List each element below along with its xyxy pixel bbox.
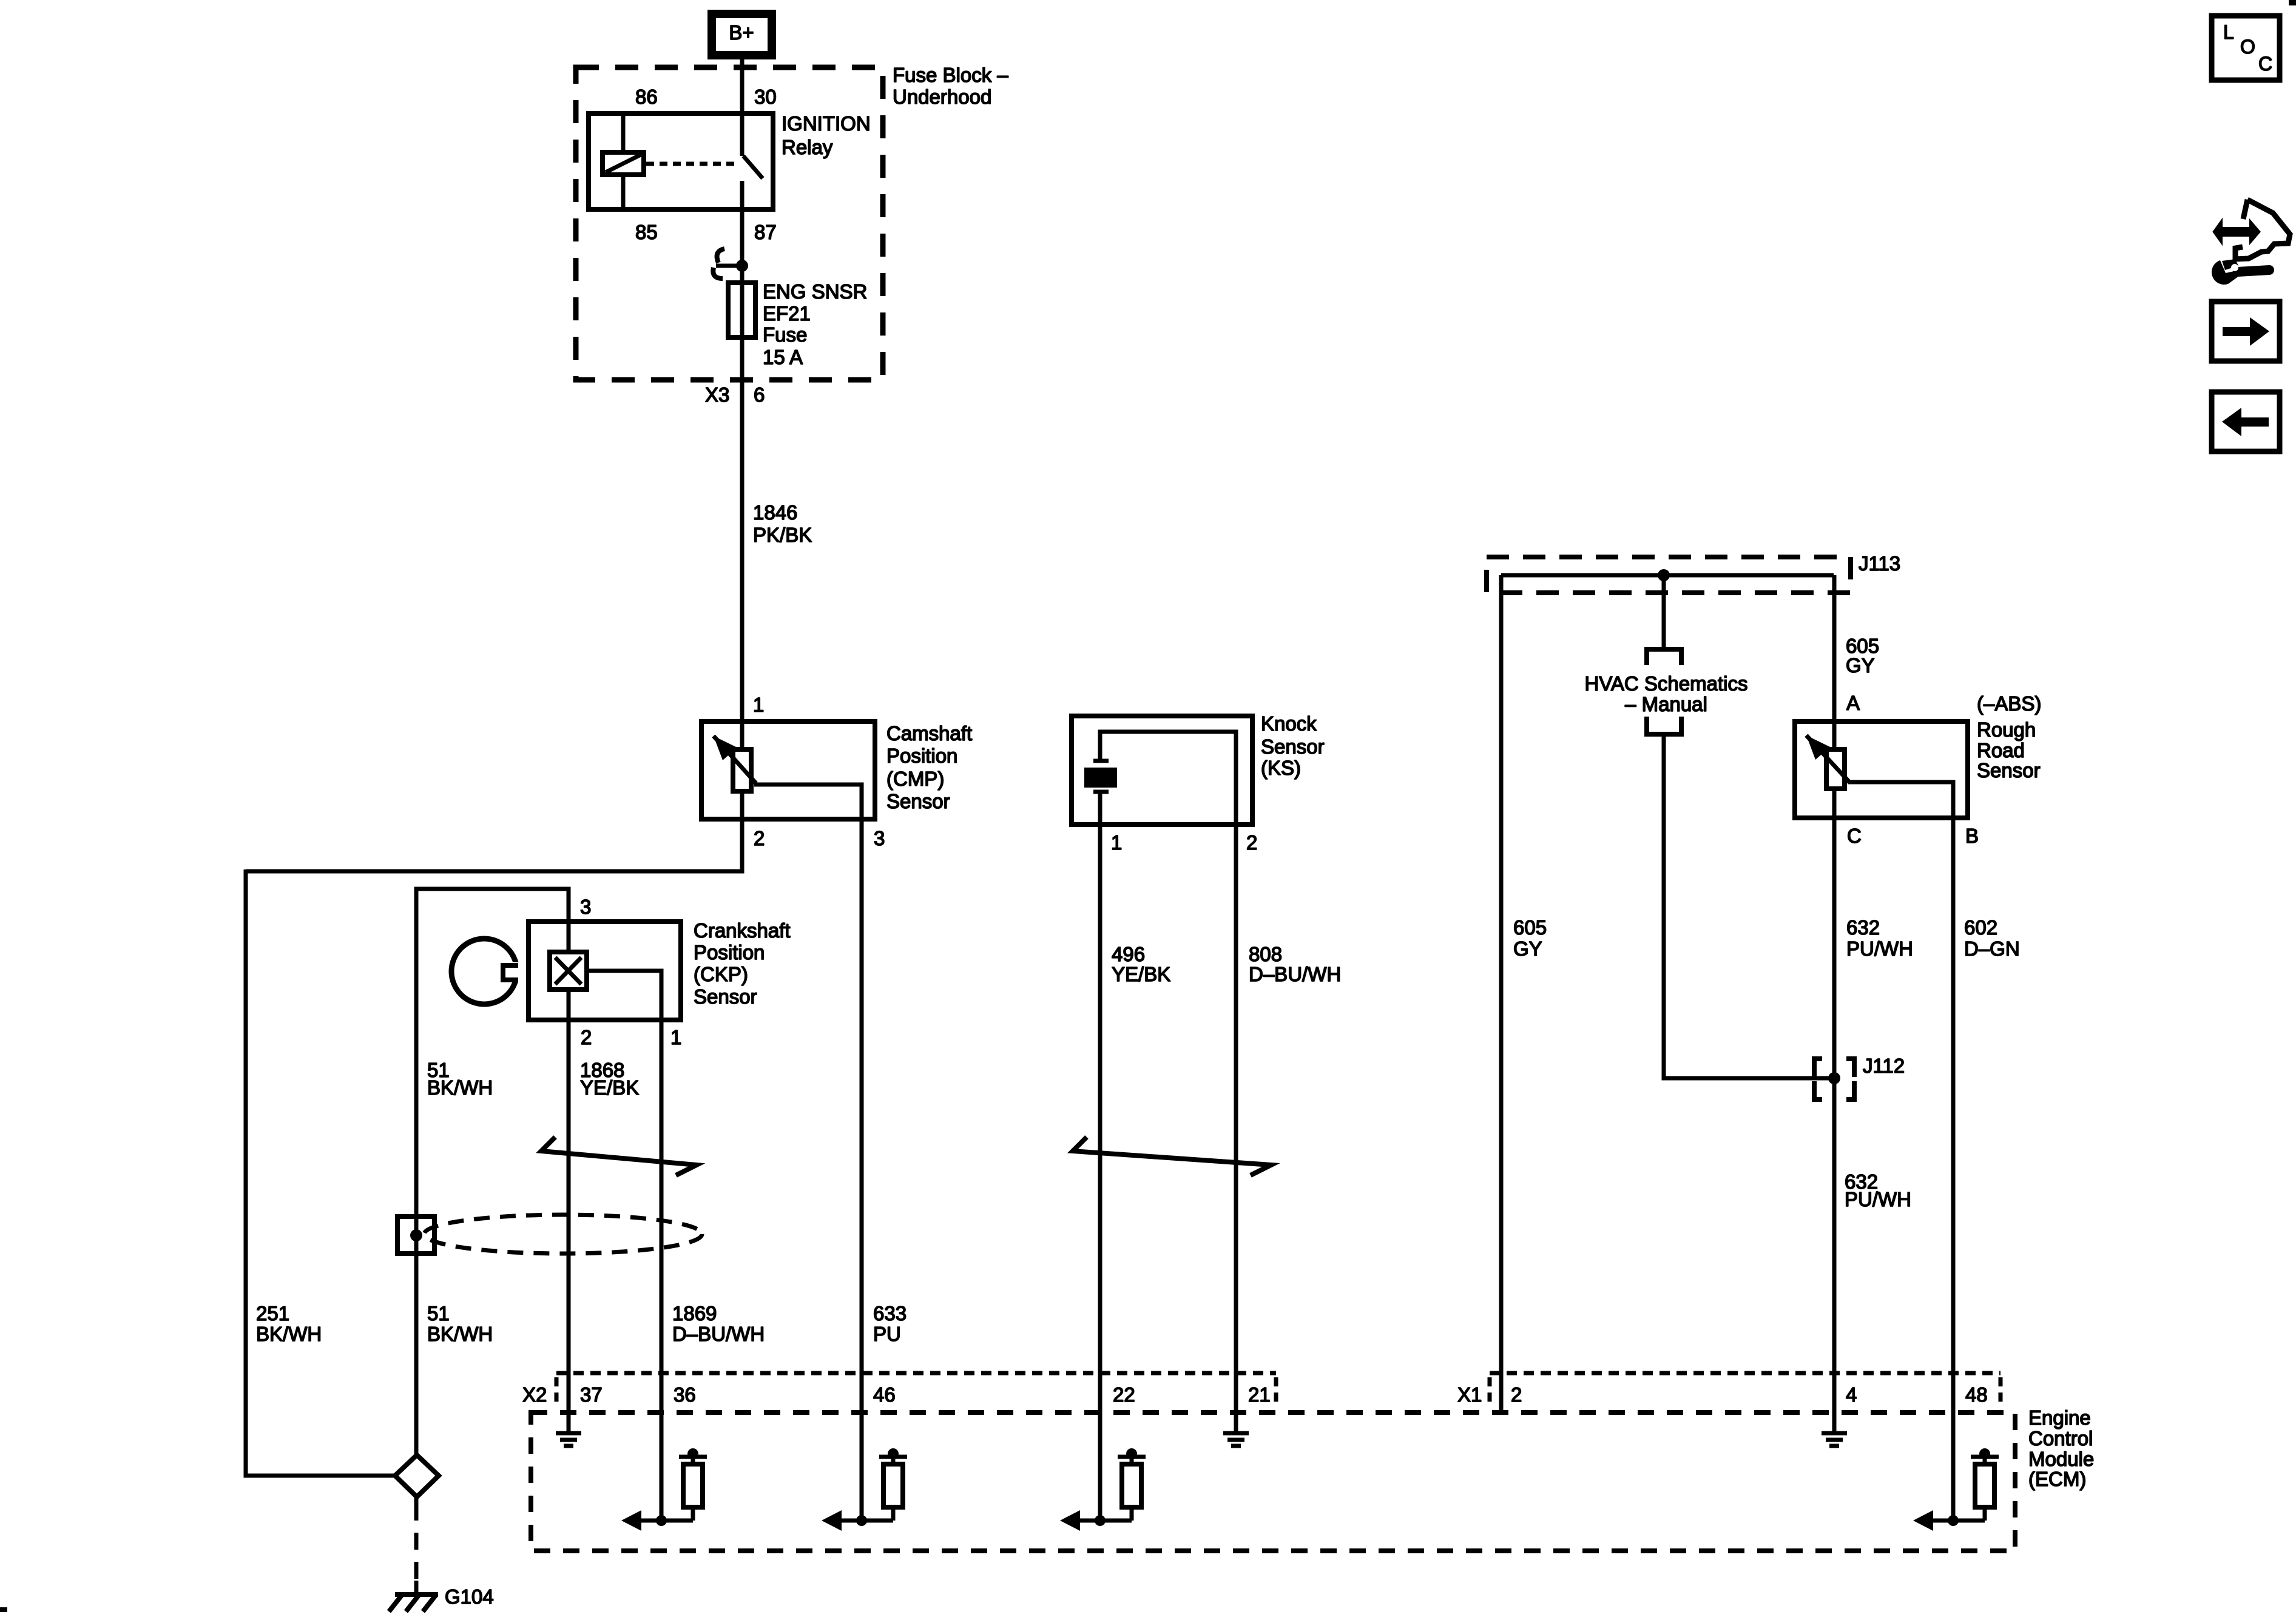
svg-text:496: 496 <box>1112 943 1145 965</box>
svg-text:86: 86 <box>635 86 658 108</box>
CKP internal wires <box>567 922 571 950</box>
wire 808 D-BU/WH to ECM pin 21 <box>1234 825 1238 1431</box>
svg-text:J112: J112 <box>1863 1055 1905 1077</box>
svg-text:A: A <box>1846 692 1860 714</box>
svg-text:HVAC Schematics: HVAC Schematics <box>1585 672 1748 695</box>
svg-text:632: 632 <box>1846 916 1880 939</box>
wire CKP pin 3 shield to 51 BK/WH <box>416 889 569 922</box>
svg-text:1846: 1846 <box>753 501 797 524</box>
svg-text:J113: J113 <box>1859 552 1900 575</box>
svg-text:37: 37 <box>580 1383 603 1406</box>
svg-text:BK/WH: BK/WH <box>427 1076 493 1099</box>
junction J112 node <box>1828 1072 1840 1084</box>
twisted pair symbol KS wires <box>1073 1137 1271 1175</box>
svg-text:PU/WH: PU/WH <box>1845 1188 1911 1210</box>
svg-text:PU: PU <box>873 1323 901 1345</box>
svg-text:1: 1 <box>670 1026 681 1048</box>
knock sensor element <box>1098 792 1102 825</box>
svg-text:(ECM): (ECM) <box>2028 1468 2086 1490</box>
off-page reference bracket top <box>1647 649 1681 665</box>
J113 bus wire <box>1501 573 1834 578</box>
svg-text:602: 602 <box>1964 916 1997 939</box>
svg-text:Fuse: Fuse <box>763 323 807 346</box>
junction block J113 dashed box <box>1487 557 1851 593</box>
svg-text:2: 2 <box>581 1026 592 1048</box>
svg-text:1: 1 <box>753 694 764 716</box>
wire 605 GY left to ECM X1 pin 2 <box>1499 575 1504 1413</box>
svg-text:O: O <box>2240 36 2255 58</box>
back arrow box <box>2212 392 2280 451</box>
svg-text:1869: 1869 <box>672 1302 717 1325</box>
connector clip symbol at fuse junction <box>717 249 724 263</box>
svg-text:– Manual: – Manual <box>1625 693 1707 715</box>
wire 1846 PK/BK to CMP sensor <box>740 380 745 723</box>
ECM internal circuit pin 46 <box>840 1519 893 1523</box>
wire 605 GY right to rough road sensor <box>1832 575 1837 721</box>
CMP sensor element arrow and resistor <box>740 721 745 819</box>
page corner mark bottom left <box>0 1607 7 1612</box>
wire 1869 D-BU/WH to ECM pin 36 <box>660 1020 664 1521</box>
wire 251 BK/WH left rail <box>246 869 395 1476</box>
svg-text:605: 605 <box>1513 916 1547 939</box>
svg-text:3: 3 <box>874 827 885 849</box>
ECM internal ground pin 21 <box>1234 1413 1238 1431</box>
diagnostic hand tool icon <box>2243 200 2247 219</box>
svg-text:Rough: Rough <box>1977 718 2036 741</box>
relay coil branch wire pin 86 to 85 <box>621 113 626 152</box>
B+ battery feed symbol <box>712 14 772 55</box>
svg-text:C: C <box>2258 53 2272 75</box>
ECM internal ground pin 4 <box>1832 1413 1837 1431</box>
CMP internal wire to pin 3 <box>754 785 862 819</box>
svg-text:251: 251 <box>256 1302 289 1325</box>
CKP pickup coil X-square <box>550 952 587 990</box>
connector X1 dotted line <box>1490 1371 2001 1376</box>
svg-text:Road: Road <box>1977 739 2025 761</box>
RRS internal wire to pin B <box>1848 782 1953 818</box>
ECM internal ground pin 37 <box>567 1413 571 1431</box>
relay switch blade <box>743 156 763 178</box>
dashed wire to ground G104 <box>414 1497 419 1504</box>
svg-text:X1: X1 <box>1457 1383 1482 1406</box>
svg-text:48: 48 <box>1965 1383 1988 1406</box>
relay switch lower contact wire pin 87 <box>740 181 745 266</box>
wire 496 YE/BK to ECM pin 22 <box>1098 825 1102 1521</box>
wire 632 PU/WH to ECM X1 pin 4 <box>1832 818 1837 1431</box>
svg-text:Sensor: Sensor <box>694 985 757 1008</box>
svg-text:633: 633 <box>873 1302 907 1325</box>
svg-text:PU/WH: PU/WH <box>1846 937 1913 960</box>
svg-text:22: 22 <box>1113 1383 1135 1406</box>
svg-text:Fuse Block –: Fuse Block – <box>893 64 1008 86</box>
ignition relay box <box>589 113 773 209</box>
Fuse Block - Underhood dashed box <box>576 67 883 380</box>
svg-text:BK/WH: BK/WH <box>427 1323 493 1345</box>
svg-text:21: 21 <box>1248 1383 1271 1406</box>
wire B+ to ignition relay pin 30 <box>740 57 745 156</box>
inline connector on wire 51 <box>397 1217 434 1254</box>
twisted pair symbol CKP wires <box>541 1137 697 1175</box>
svg-text:4: 4 <box>1846 1383 1857 1406</box>
svg-text:YE/BK: YE/BK <box>580 1076 639 1099</box>
svg-text:(KS): (KS) <box>1261 757 1301 779</box>
svg-text:Sensor: Sensor <box>886 790 950 812</box>
svg-text:Crankshaft: Crankshaft <box>694 919 791 942</box>
off-page reference bracket bottom <box>1647 717 1681 734</box>
wrench icon <box>2238 270 2269 272</box>
svg-text:Underhood: Underhood <box>893 86 991 108</box>
wire 1868 YE/BK to ECM pin 37 <box>567 1020 571 1431</box>
crankshaft position CKP sensor box <box>528 922 681 1020</box>
fuse ENG SNSR EF21 15A <box>740 266 745 283</box>
J113 junction node <box>1658 569 1670 581</box>
svg-text:Camshaft: Camshaft <box>886 722 972 744</box>
svg-text:(–ABS): (–ABS) <box>1977 692 2041 715</box>
svg-text:GY: GY <box>1846 654 1875 677</box>
svg-text:51: 51 <box>427 1302 450 1325</box>
svg-text:PK/BK: PK/BK <box>753 524 812 546</box>
svg-text:Module: Module <box>2028 1448 2094 1470</box>
relay coil <box>603 152 644 175</box>
rough road sensor box <box>1795 721 1968 818</box>
svg-text:(CMP): (CMP) <box>886 768 944 790</box>
HVAC schematics branch wire <box>1662 575 1666 647</box>
svg-text:Engine: Engine <box>2028 1406 2091 1429</box>
ECM internal circuit pin 36 <box>640 1519 693 1523</box>
svg-text:B+: B+ <box>729 21 754 44</box>
RRS sensor element arrow and resistor <box>1832 721 1837 818</box>
wire HVAC branch down to J112 <box>1664 734 1834 1078</box>
svg-text:D–BU/WH: D–BU/WH <box>672 1323 765 1345</box>
svg-text:(CKP): (CKP) <box>694 963 748 985</box>
svg-text:EF21: EF21 <box>763 302 811 325</box>
svg-text:D–BU/WH: D–BU/WH <box>1249 963 1341 985</box>
wire 51 BK/WH from splice <box>414 889 419 1455</box>
svg-text:1: 1 <box>1111 831 1122 854</box>
svg-text:36: 36 <box>674 1383 696 1406</box>
svg-text:X3: X3 <box>705 383 729 406</box>
svg-text:Knock: Knock <box>1261 712 1317 735</box>
svg-text:BK/WH: BK/WH <box>256 1323 322 1345</box>
svg-text:IGNITION: IGNITION <box>782 112 871 135</box>
svg-text:85: 85 <box>635 221 658 243</box>
svg-text:Sensor: Sensor <box>1261 735 1325 758</box>
svg-text:GY: GY <box>1513 937 1542 960</box>
ECM internal circuit pin 48 <box>1931 1519 1985 1523</box>
junction node above fuse <box>736 260 748 272</box>
svg-text:2: 2 <box>1511 1383 1522 1406</box>
camshaft position CMP sensor box <box>701 721 875 819</box>
wire CMP pin 2 ground path <box>246 819 742 871</box>
svg-text:15 A: 15 A <box>763 346 803 368</box>
svg-text:L: L <box>2223 21 2234 43</box>
ground G104 chassis symbol <box>414 1581 419 1595</box>
svg-text:Sensor: Sensor <box>1977 759 2041 781</box>
svg-text:Position: Position <box>694 941 765 964</box>
page corner mark top right <box>2289 0 2296 5</box>
relay actuation dashed link <box>646 162 739 166</box>
svg-text:808: 808 <box>1249 943 1282 965</box>
svg-text:6: 6 <box>754 383 765 406</box>
svg-text:D–GN: D–GN <box>1964 937 2020 960</box>
knock sensor KS box <box>1072 716 1252 825</box>
svg-text:B: B <box>1965 825 1979 847</box>
harness dashed ellipse <box>424 1215 702 1254</box>
CKP reluctor wheel circle <box>451 939 517 1004</box>
svg-text:87: 87 <box>754 221 777 243</box>
svg-text:G104: G104 <box>445 1585 494 1608</box>
splice diamond S-point <box>395 1455 439 1497</box>
forward arrow box <box>2212 302 2280 361</box>
junction J112 dashed corner brackets <box>1814 1059 1822 1077</box>
wire 633 PU from CMP pin 3 to ECM pin 46 <box>860 819 864 1521</box>
svg-text:3: 3 <box>580 896 591 918</box>
svg-text:YE/BK: YE/BK <box>1112 963 1170 985</box>
svg-text:Control: Control <box>2028 1427 2093 1450</box>
connector X2 dotted line <box>556 1371 1276 1376</box>
ECM internal circuit pin 22 <box>1078 1519 1132 1523</box>
engine control module ECM dashed box <box>531 1413 2015 1551</box>
svg-text:30: 30 <box>754 86 777 108</box>
LOC legend box <box>2212 16 2280 80</box>
svg-text:C: C <box>1847 825 1862 847</box>
svg-text:X2: X2 <box>522 1383 547 1406</box>
svg-text:Relay: Relay <box>782 136 833 158</box>
svg-text:46: 46 <box>873 1383 896 1406</box>
svg-text:2: 2 <box>1246 831 1257 854</box>
svg-text:ENG SNSR: ENG SNSR <box>763 280 867 303</box>
svg-text:2: 2 <box>754 827 765 849</box>
wire 602 D-GN to ECM X1 pin 48 <box>1951 818 1956 1521</box>
svg-text:Position: Position <box>886 744 957 767</box>
